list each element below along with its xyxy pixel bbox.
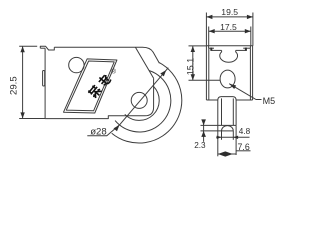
node 17.5 arrow right <box>245 29 251 33</box>
node roller bottom dome <box>222 126 234 131</box>
wire 15.1 bottom extension <box>189 79 221 81</box>
wire left shoulder <box>206 99 217 101</box>
svg-text:17.5: 17.5 <box>220 22 237 32</box>
node 15.1 arrow up <box>191 46 195 52</box>
wire 2.3 extension top <box>201 124 218 126</box>
node 17.5 arrow left <box>209 29 215 33</box>
wire 7.6 dimension line <box>218 153 236 155</box>
wire 15.1 top extension <box>189 45 207 47</box>
wire 2.3 dimension line <box>203 120 205 142</box>
wire right shoulder <box>236 99 253 101</box>
wire side body left outer edge <box>205 52 207 101</box>
wire 29.5 extension line top <box>19 45 37 47</box>
wire roller arch bottom edge <box>218 124 236 126</box>
wire side view left tab details <box>205 46 207 52</box>
wire 17.5 dimension line <box>209 30 251 32</box>
wire roller inner left line <box>221 98 223 125</box>
wire 7.6 extension lines <box>217 125 219 156</box>
wire bracket rounded top-right corner and slant edge <box>143 47 160 63</box>
node 29.5 arrow up <box>20 46 24 52</box>
wire 19.5 extension lines <box>205 13 207 46</box>
wire bracket tab underside <box>40 47 45 49</box>
node o28 arrow lower-left <box>114 125 120 131</box>
wire 19.5 dimension line <box>206 16 253 18</box>
wire 15.1 dimension line <box>192 46 194 80</box>
wire bracket inner edge vertical and corner to bottom <box>45 78 154 118</box>
wire 2.3 extension bottom <box>201 130 222 132</box>
wheel outer circle <box>112 62 182 143</box>
node oval hole M5 <box>220 70 235 88</box>
node 2.3 arrow top (points down) <box>201 119 206 125</box>
node 19.5 arrow left <box>206 15 212 19</box>
node 29.5 arrow down <box>20 112 24 118</box>
node 19.5 arrow right <box>247 15 253 19</box>
svg-text:®: ® <box>111 67 116 75</box>
svg-text:4.8: 4.8 <box>239 127 251 136</box>
node 7.6 diamond arrows <box>218 151 233 156</box>
wire side body right outer edge <box>252 52 254 101</box>
svg-text:7.6: 7.6 <box>238 142 250 152</box>
svg-text:15.1: 15.1 <box>185 58 195 76</box>
svg-text:M5: M5 <box>263 96 276 106</box>
wheel groove circle <box>125 87 159 121</box>
svg-text:ø28: ø28 <box>90 126 107 137</box>
wire 17.5 extension lines <box>208 27 210 46</box>
node label plate inner outline <box>66 61 114 111</box>
node 4.8 arrow right (points left) <box>233 136 238 139</box>
node round hole in plate <box>69 57 84 72</box>
wire side view top edge <box>206 45 253 47</box>
wire 29.5 extension line bottom <box>19 118 45 120</box>
wire 7.6 shelf line <box>236 150 250 152</box>
wire o28 dimension line <box>120 68 169 125</box>
node label char ju (聚) <box>87 84 102 99</box>
wire bracket inner bend slant <box>135 47 153 78</box>
node roller arch outline <box>218 97 236 126</box>
svg-text:19.5: 19.5 <box>221 7 238 17</box>
wire M5 leader <box>229 84 261 100</box>
node 2.3 arrow bottom (points up) <box>201 131 206 137</box>
wire o28 leader and underline <box>87 125 119 136</box>
node wheel hub circle <box>131 92 147 108</box>
svg-text:2.3: 2.3 <box>194 141 206 150</box>
wire roller inner right line <box>232 98 234 125</box>
node M5 leader arrow <box>229 84 236 89</box>
wire 4.8 extension lines <box>221 131 223 140</box>
wheel tread circle (o28) <box>115 71 171 132</box>
wire side view right tab details <box>252 46 254 52</box>
wire bracket top edge <box>54 46 142 48</box>
wire side body right inner edge <box>249 48 251 100</box>
node o28 arrow upper-right <box>160 70 166 76</box>
wire side body left inner edge <box>208 48 210 100</box>
node 4.8 arrow left (points right) <box>217 136 222 139</box>
wire 4.8 dimension/shelf line <box>216 136 249 138</box>
svg-text:29.5: 29.5 <box>8 76 19 95</box>
wire bracket left edge <box>44 48 46 118</box>
wire dome base line <box>222 130 234 132</box>
node label plate outer outline <box>64 59 117 113</box>
wire 29.5 dimension line <box>22 46 24 118</box>
node label char long (龙) <box>97 73 112 88</box>
node horseshoe cutout at top center <box>220 50 238 62</box>
node 15.1 arrow down <box>191 74 195 80</box>
node left edge rib slot <box>43 71 45 87</box>
wire bracket top tab (left view) <box>40 46 54 50</box>
